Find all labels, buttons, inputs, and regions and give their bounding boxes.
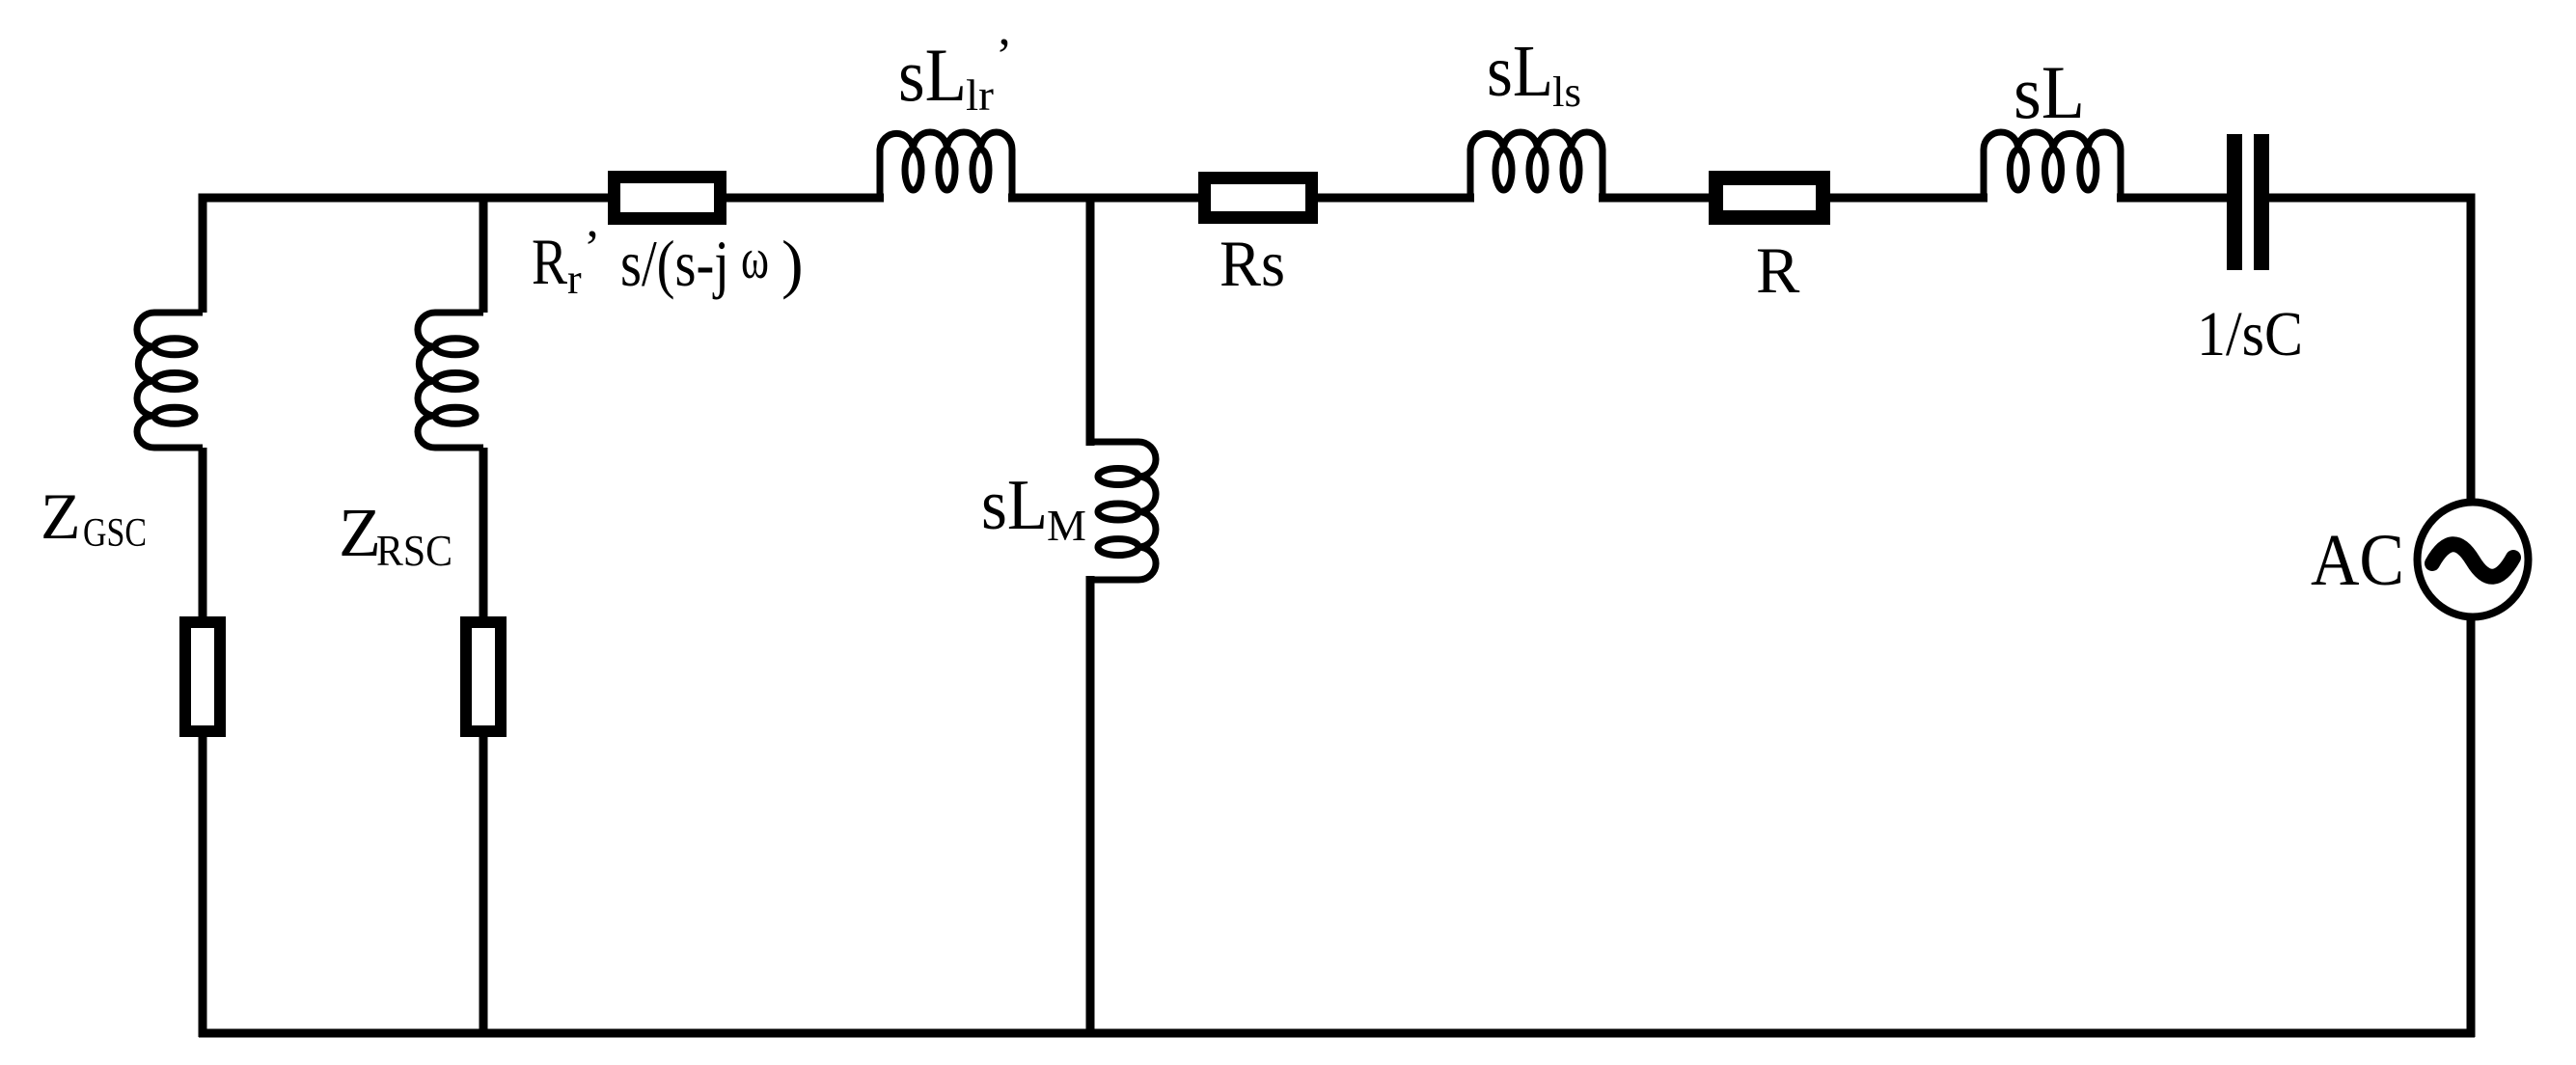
svg-text:AC: AC	[2311, 520, 2404, 601]
svg-text:sL: sL	[981, 466, 1048, 545]
wire top between sL coil and capacitor	[2117, 194, 2227, 203]
wire top between R resistor and sL coil	[1823, 194, 1987, 203]
wire second rail: coil to resistor ZRSC	[480, 448, 488, 622]
svg-text:): )	[781, 227, 804, 300]
wire top between Rr resistor and sLlr coil	[721, 194, 884, 203]
label R	[1756, 233, 1800, 307]
wire top between sLlr coil and Rs resistor, through node T	[1008, 194, 1204, 203]
inductor ZGSC coil	[137, 313, 203, 448]
AC source circle	[2418, 503, 2529, 617]
svg-text:R: R	[532, 225, 568, 298]
wire right rail below AC source	[2467, 617, 2476, 1037]
wire top between Rs and sLls coil	[1312, 194, 1474, 203]
svg-text:sL: sL	[2014, 50, 2085, 134]
svg-text:R: R	[1756, 233, 1800, 307]
inductor sLM coil	[1090, 442, 1156, 580]
label AC	[2311, 520, 2404, 601]
svg-text:r: r	[567, 256, 582, 303]
capacitor 1/sC plate right	[2254, 134, 2269, 270]
resistor R	[1716, 178, 1823, 218]
label 1/sC	[2197, 299, 2303, 369]
capacitor 1/sC plate left	[2227, 134, 2242, 270]
resistor Rs	[1205, 178, 1312, 218]
wire top-left corner and top rail to resistor Rr	[203, 198, 614, 313]
wire top between sLls coil and R resistor	[1599, 194, 1715, 203]
wire second rail: top to coil ZRSC	[480, 198, 488, 313]
resistor ZRSC	[466, 622, 501, 731]
svg-text:Rs: Rs	[1219, 227, 1285, 300]
svg-text:sL: sL	[1487, 31, 1553, 112]
svg-text:1/sC: 1/sC	[2197, 299, 2303, 369]
wire left rail: coil to resistor ZGSC	[199, 448, 207, 622]
svg-text:s/(s-j: s/(s-j	[620, 227, 729, 300]
wire bottom rail	[199, 1029, 2475, 1038]
svg-text:GSC: GSC	[83, 511, 147, 556]
label Rs	[1219, 227, 1285, 300]
label sLM	[981, 466, 1086, 550]
svg-text:ls: ls	[1552, 68, 1581, 116]
svg-text:sL: sL	[898, 33, 967, 117]
wire middle rail: node T down to sLM coil	[1086, 198, 1095, 446]
label ZGSC	[41, 479, 147, 556]
wire left rail: resistor ZGSC to bottom	[199, 731, 207, 1037]
svg-text:Z: Z	[339, 494, 381, 571]
resistor ZGSC	[185, 622, 220, 731]
AC source sine wave	[2432, 544, 2513, 577]
inductor sLls coil	[1470, 132, 1603, 198]
wire second rail: resistor ZRSC to bottom	[480, 731, 488, 1037]
label Rr' s/(s-jw)	[532, 221, 804, 303]
svg-text:Z: Z	[41, 479, 81, 553]
svg-text:ω: ω	[741, 227, 769, 290]
label sL	[2014, 50, 2085, 134]
svg-text:RSC: RSC	[376, 527, 452, 575]
resistor Rr'	[615, 177, 721, 219]
inductor sL coil	[1984, 132, 2121, 198]
wire middle rail: sLM coil to bottom	[1086, 576, 1095, 1037]
label ZRSC	[339, 494, 452, 575]
svg-text:’: ’	[996, 29, 1012, 84]
svg-text:’: ’	[584, 221, 600, 276]
label sLls	[1487, 31, 1581, 116]
wire top-right corner from capacitor down to AC source	[2269, 198, 2471, 504]
inductor ZRSC coil	[418, 313, 483, 448]
svg-text:lr: lr	[966, 70, 994, 120]
inductor sLlr' coil	[880, 132, 1012, 198]
svg-text:M: M	[1047, 501, 1086, 550]
label sLlr'	[898, 29, 1012, 120]
